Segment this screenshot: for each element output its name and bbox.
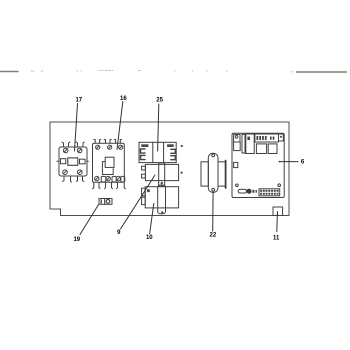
- svg-text:11: 11: [273, 236, 280, 242]
- svg-text:10: 10: [146, 235, 153, 241]
- svg-text:17: 17: [75, 98, 82, 104]
- svg-text:19: 19: [73, 237, 80, 243]
- svg-text:22: 22: [210, 233, 217, 239]
- svg-text:6: 6: [301, 159, 305, 165]
- svg-text:9: 9: [117, 230, 121, 236]
- svg-text:25: 25: [156, 98, 163, 104]
- svg-text:16: 16: [120, 96, 127, 102]
